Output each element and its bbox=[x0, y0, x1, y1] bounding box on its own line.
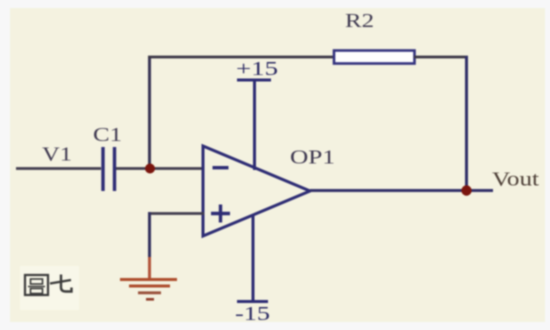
capacitor C1 bbox=[103, 147, 115, 191]
svg-text:R2: R2 bbox=[345, 10, 374, 32]
junction node at inverting input bbox=[145, 164, 155, 174]
wire: top rail from left corner to R2 bbox=[148, 56, 335, 59]
wire: OP1 output to Vout bbox=[310, 189, 493, 192]
power +15 supply bbox=[237, 80, 271, 170]
svg-text:-15: -15 bbox=[235, 303, 270, 325]
wire: C1 to inverting input of OP1 bbox=[116, 167, 204, 170]
wire: R2 to right corner bbox=[414, 56, 468, 59]
wire: non-inverting input bbox=[148, 212, 204, 215]
wire: V1 input to C1 bbox=[16, 167, 101, 170]
wire: feedback vertical left (node to top rail) bbox=[148, 57, 151, 168]
svg-text:V1: V1 bbox=[42, 144, 72, 166]
wire: feedback vertical right (to output node) bbox=[465, 56, 468, 190]
svg-text:C1: C1 bbox=[93, 124, 122, 146]
svg-text:Vout: Vout bbox=[492, 169, 540, 191]
ground bbox=[120, 257, 177, 299]
svg-text:+15: +15 bbox=[236, 58, 278, 80]
power -15 supply bbox=[237, 215, 268, 302]
svg-text:OP1: OP1 bbox=[290, 147, 335, 169]
figure caption 圖七 bbox=[25, 275, 72, 296]
wire: non-inverting input down to ground bbox=[148, 212, 151, 258]
op-amp OP1 bbox=[203, 146, 310, 236]
resistor R2 bbox=[334, 51, 415, 64]
junction node at output bbox=[461, 185, 471, 195]
